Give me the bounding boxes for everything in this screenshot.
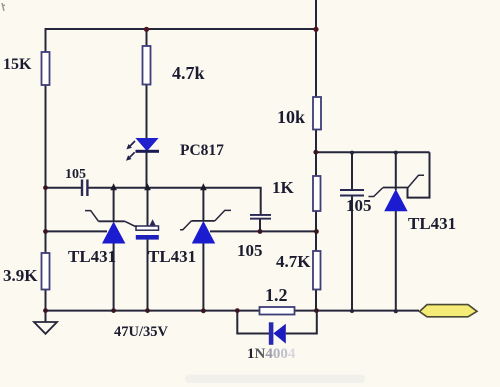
ground: [34, 311, 57, 334]
capacitor 105 left: [81, 180, 89, 197]
wire: TL431 U1 cathode lead: [113, 188, 115, 222]
wire: TL431 U1 bar to 47U cap link: [125, 221, 137, 226]
wire: lower-left horizontal to TL431 U1: [45, 230, 107, 232]
svg-text:1.2: 1.2: [265, 285, 288, 305]
label PC817: [180, 142, 224, 159]
junction arrow at TL431 U1 cathode node: [110, 183, 117, 190]
wire: cap 105 (mid) bottom lead: [259, 219, 261, 232]
svg-text:4.7k: 4.7k: [172, 63, 205, 83]
label TL431 U3: [408, 214, 456, 233]
svg-text:TL431: TL431: [68, 247, 116, 266]
resistor 3.9K: [42, 253, 50, 290]
wire: lower-middle horizontal TL431 U2 to 1K/4.7K node: [210, 230, 317, 232]
wire: middle horizontal net (left of cap 105): [45, 187, 81, 189]
resistor 10k: [313, 97, 321, 130]
junction dot top rail / 4.7k: [144, 27, 149, 32]
resistor 1K: [313, 176, 321, 211]
wire: feedback box right side of TL431 U3: [408, 152, 430, 197]
label 4.7K: [276, 252, 311, 271]
junction dot mid-right rail / cap 105 right: [350, 151, 354, 155]
label TL431 U1: [68, 247, 116, 266]
junction dot bottom rail / 47U cap: [145, 308, 150, 313]
junction dot bottom rail / left bus: [43, 308, 48, 313]
wire: top-right vertical to edge: [315, 0, 317, 30]
resistor 1.2: [260, 307, 295, 315]
label 1.2: [265, 285, 288, 305]
junction arrow at TL431 U2 cathode node: [200, 183, 207, 190]
capacitor 47U/35V electrolytic: [136, 221, 159, 240]
label 1K: [272, 178, 295, 197]
resistor 4.7K: [313, 251, 321, 290]
wire: top rail: [45, 28, 317, 30]
resistor 4.7k: [143, 46, 151, 85]
wire: cap 105 (right) bottom lead: [351, 197, 353, 312]
svg-text:PC817: PC817: [180, 142, 224, 159]
junction dot left bus / lower net: [43, 229, 48, 234]
label 47U/35V: [114, 324, 169, 340]
TL431 U3: [369, 175, 425, 211]
junction dot bottom rail / bypass right: [314, 308, 319, 313]
wire: TL431 U3 anode lead: [395, 211, 397, 312]
label 1N4004: [247, 346, 296, 362]
svg-text:4.7K: 4.7K: [276, 252, 311, 271]
junction dot mid-right rail / TL431 U3: [394, 151, 398, 155]
svg-text:10k: 10k: [277, 107, 305, 127]
optocoupler LED PC817: [126, 139, 159, 161]
label 15K: [3, 56, 32, 73]
svg-text:15K: 15K: [3, 56, 32, 73]
wire: left vertical bus: [45, 28, 47, 311]
junction dot 1K/4.7K node: [314, 229, 319, 234]
label 3.9K: [3, 266, 38, 285]
junction dot bottom rail / bypass left: [235, 308, 240, 313]
wire: right vertical bus (10k/1K/4.7K): [315, 29, 317, 311]
svg-text:1K: 1K: [272, 178, 295, 197]
capacitor 105 right: [340, 189, 364, 197]
scan artifact top-left: [2, 3, 5, 11]
label 10k: [277, 107, 305, 127]
label 4.7k: [172, 63, 205, 83]
junction dot bottom rail / TL431 U2 anode: [201, 308, 206, 313]
TL431 U2: [180, 210, 231, 243]
wire: cap 105 (right) top lead: [351, 152, 353, 189]
junction dot left bus / mid net: [43, 185, 48, 190]
capacitor 105 middle: [250, 214, 271, 220]
wire: 47U/35V cap bottom lead: [147, 239, 149, 311]
svg-text:47U/35V: 47U/35V: [114, 324, 169, 340]
wire: bottom rail right of 1.2: [295, 310, 420, 312]
resistor 15K: [42, 52, 50, 85]
junction dot bottom rail / cap 105 right: [350, 309, 354, 313]
junction dot cap 105 mid bottom: [258, 229, 263, 234]
wire: mid-right horizontal rail: [316, 151, 430, 153]
TL431 U1: [85, 211, 125, 244]
diode 1N4004: [269, 322, 286, 345]
svg-text:105: 105: [346, 196, 372, 215]
junction dot top rail / right bus: [313, 27, 318, 32]
wire: TL431 U3 cathode lead: [395, 152, 397, 190]
wire: diode bypass loop: [237, 311, 316, 334]
wire: TL431 U2 cathode lead: [202, 188, 204, 221]
wire: middle horizontal net (right of cap 105) with corner down to cap: [89, 188, 261, 214]
net tag yellow connector: [420, 305, 478, 317]
svg-text:TL431: TL431: [148, 247, 196, 266]
junction arrow at 47U cap node: [144, 183, 151, 190]
wire: 4.7k / PC817 branch vertical: [146, 29, 148, 188]
svg-text:105: 105: [237, 241, 263, 260]
svg-text:105: 105: [65, 167, 86, 182]
junction dot bottom rail / TL431 U1 anode: [111, 308, 116, 313]
wire: TL431 U1 anode lead: [113, 243, 115, 311]
label 105 left: [65, 167, 86, 182]
junction dot bottom rail / TL431 U3 anode: [394, 309, 398, 313]
wire: TL431 U2 anode lead: [202, 243, 204, 311]
junction dot 10k/1K node: [313, 150, 318, 155]
wire: bottom rail left of 1.2: [45, 310, 260, 312]
svg-text:1N4004: 1N4004: [247, 346, 296, 362]
label 105 middle: [237, 241, 263, 260]
svg-text:TL431: TL431: [408, 214, 456, 233]
label 105 right: [346, 196, 372, 215]
label TL431 U2: [148, 247, 196, 266]
scan artifact bottom smudge: [185, 375, 365, 384]
svg-text:3.9K: 3.9K: [3, 266, 38, 285]
wire: 47U/35V cap top lead: [147, 188, 149, 226]
